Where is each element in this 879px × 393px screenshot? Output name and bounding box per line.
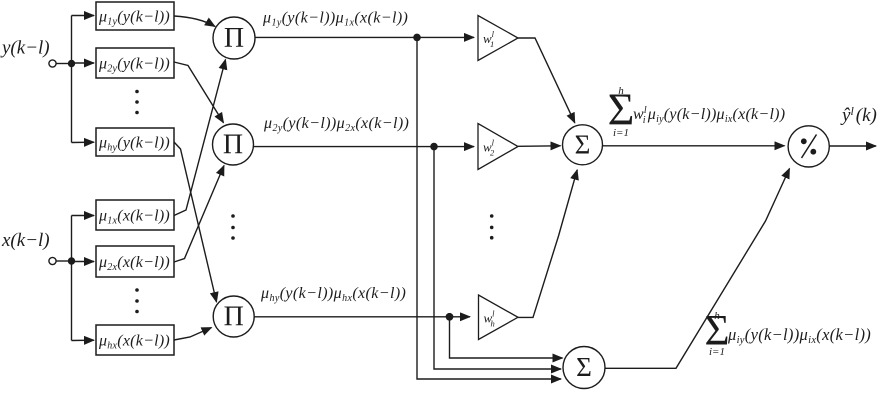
svg-text:Σ: Σ [576, 352, 592, 382]
wire mu2x to product node P2 [174, 166, 224, 263]
product node P1 [213, 17, 255, 59]
wire arrow into box mu1x [72, 215, 95, 217]
formula denominator sum [704, 308, 871, 359]
product node P2 [213, 124, 254, 165]
box muhx [96, 325, 174, 355]
division node [788, 126, 829, 167]
ellipsis between x boxes [135, 288, 139, 313]
box mu1y [96, 2, 174, 30]
input label y(k-l) [0, 38, 50, 59]
ellipsis between weight triangles [490, 214, 494, 239]
input terminal circle x [49, 257, 56, 264]
svg-text:i=1: i=1 [709, 346, 725, 358]
label product 1 output [262, 10, 408, 29]
wire arrow into box muhx [72, 339, 95, 341]
input terminal circle y [49, 60, 56, 67]
weight triangle w1 [478, 16, 518, 61]
input label x(k-l) [1, 230, 50, 251]
formula numerator sum [608, 84, 786, 140]
wire product3 output [254, 316, 470, 318]
svg-text:Π: Π [224, 302, 244, 333]
summation node upper [563, 125, 603, 165]
junction dot before wh [446, 313, 454, 321]
svg-text:ŷl(k): ŷl(k) [840, 104, 877, 126]
box mu2y [96, 48, 174, 78]
svg-text:Π: Π [223, 130, 243, 161]
svg-text:μ1y(y(k−l))μ1x(x(k−l)): μ1y(y(k−l))μ1x(x(k−l)) [262, 10, 408, 29]
svg-text:x(k−l): x(k−l) [1, 230, 50, 251]
weight triangle wh [479, 295, 519, 340]
wire mu1y to product node P1 [174, 16, 215, 27]
wire product1 output [255, 36, 474, 38]
junction dot on line2 [430, 143, 438, 151]
wire mu2y to product node P2 [174, 62, 224, 123]
svg-text:Σ: Σ [575, 130, 591, 160]
svg-text:wliμiy(y(k−l))μix(x(k−l)): wliμiy(y(k−l))μix(x(k−l)) [633, 105, 785, 126]
junction dot on line1 [413, 34, 421, 42]
box muhy [96, 128, 174, 156]
junction dot on line3 [446, 313, 454, 321]
summation node lower [563, 347, 605, 389]
wire arrow into box mu2x [72, 261, 95, 263]
wire feed3 down to lower sum [450, 317, 563, 358]
wire w2 to upper sum [518, 145, 561, 148]
wire product2 output [254, 146, 475, 148]
output label yhat [840, 104, 877, 126]
junction dot y [68, 60, 75, 67]
weight triangle w2 [478, 124, 518, 170]
wire y terminal to junction [56, 63, 71, 65]
output wire [829, 145, 876, 147]
svg-text:μ2y(y(k−l))μ2x(x(k−l)): μ2y(y(k−l))μ2x(x(k−l)) [263, 115, 409, 134]
wire wh to upper sum [518, 170, 577, 318]
wire arrow into box muhy [72, 141, 95, 143]
ellipsis between product nodes [231, 214, 235, 240]
wire mu1x to product node P1 [174, 60, 226, 216]
ellipsis between y boxes [135, 90, 139, 115]
wire upper sum to division node [603, 145, 785, 147]
svg-text:Π: Π [224, 23, 244, 54]
wire arrow into box mu1y [72, 15, 95, 17]
label product 3 output [260, 285, 406, 304]
wire arrow into box mu2y [72, 62, 95, 64]
wire w1 to upper sum [518, 38, 575, 123]
wire muhy to product node P3 [174, 142, 217, 302]
wire feed1 down to lower sum [417, 37, 561, 379]
wire y branch vertical [71, 16, 73, 143]
box mu1x [96, 200, 174, 230]
product node P3 [213, 296, 254, 337]
box mu2x [96, 246, 174, 277]
wire lower sum to division node [605, 169, 790, 369]
wire feed2 down to lower sum [434, 147, 561, 369]
svg-text:y(k−l): y(k−l) [0, 38, 50, 59]
svg-text:μhy(y(k−l))μhx(x(k−l)): μhy(y(k−l))μhx(x(k−l)) [260, 285, 406, 304]
wire x branch vertical [71, 216, 73, 341]
svg-text:i=1: i=1 [613, 127, 629, 139]
svg-text:μiy(y(k−l))μix(x(k−l)): μiy(y(k−l))μix(x(k−l)) [727, 325, 871, 346]
svg-text:h: h [618, 85, 624, 97]
wire muhx to product node P3 [174, 328, 212, 341]
wire x terminal to junction [56, 260, 71, 262]
junction dot x [68, 257, 75, 264]
svg-text:h: h [714, 310, 720, 322]
label product 2 output [263, 115, 409, 134]
